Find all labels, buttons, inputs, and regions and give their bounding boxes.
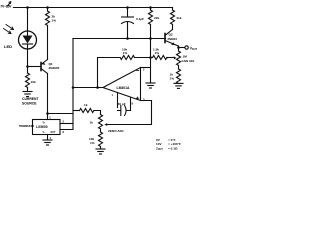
resistor R2 2k emitter Q1 — [46, 6, 49, 9]
node feedback at apex — [96, 86, 99, 89]
wire LED cathode to node — [27, 49, 29, 67]
svg-text:22k: 22k — [154, 16, 159, 20]
svg-text:1%: 1% — [170, 77, 175, 81]
svg-text:10k: 10k — [31, 80, 36, 84]
potentiometer R10 1k zero adj — [99, 115, 103, 133]
supply input arrow — [8, 2, 11, 6]
svg-text:7V–15V: 7V–15V — [0, 4, 12, 8]
terminal Vout — [185, 46, 188, 49]
wire box pin1 to vertical bus — [48, 113, 74, 115]
wire box lower right pin, vertical bus — [60, 39, 73, 130]
transistor Q2 2N3904 — [165, 30, 179, 48]
svg-text:1k: 1k — [90, 121, 94, 125]
wire non-inverting loop — [107, 101, 152, 125]
svg-text:2N3904: 2N3904 — [168, 37, 178, 41]
wire node to pin2 ground — [150, 39, 152, 84]
svg-text:LED: LED — [4, 44, 12, 49]
svg-text:Q2: Q2 — [169, 33, 173, 37]
wire top rail — [14, 7, 173, 9]
wire inverting input to ground bus — [141, 67, 151, 69]
svg-text:= 0.1Ω: = 0.1Ω — [168, 146, 178, 150]
svg-text:30 pF: 30 pF — [118, 102, 126, 106]
LED D1 — [19, 31, 37, 49]
node op-amp output — [72, 86, 75, 89]
svg-text:1%: 1% — [52, 18, 57, 22]
ground R7 — [174, 83, 183, 88]
resistor R4 41k — [171, 8, 175, 30]
svg-text:CURRENT: CURRENT — [22, 97, 40, 101]
input plus — [136, 97, 138, 99]
node rail-LED — [26, 6, 29, 9]
wire box upper right pin — [60, 123, 73, 125]
svg-text:OUT: OUT — [51, 132, 56, 134]
node Q1 collector / box top pin — [46, 112, 49, 115]
svg-text:1%: 1% — [90, 141, 95, 145]
node LED-base junction — [26, 65, 29, 68]
ground box — [43, 140, 52, 145]
wire op-amp output — [73, 87, 103, 89]
svg-text:1%: 1% — [155, 51, 160, 55]
wire upper horizontal to cap and base — [73, 38, 166, 40]
svg-text:0.1µF: 0.1µF — [136, 17, 144, 21]
svg-text:41k: 41k — [176, 16, 181, 20]
arrow into zero pot — [104, 123, 107, 126]
ground LED resistor — [23, 92, 32, 97]
resistor R3 22k — [149, 6, 152, 9]
IC LX5600 transducer box — [33, 120, 61, 135]
wire box top pin — [47, 114, 49, 120]
node 22k bottom — [149, 37, 152, 40]
svg-text:1%: 1% — [123, 51, 128, 55]
wire to Vout — [179, 47, 185, 49]
resistor R1 1k below LED — [26, 67, 30, 92]
svg-text:2N2905: 2N2905 — [49, 66, 60, 70]
svg-text:TRANSDUCER: TRANSDUCER — [19, 125, 34, 128]
svg-text:LM301A: LM301A — [117, 86, 131, 90]
svg-text:1k: 1k — [84, 103, 88, 107]
capacitor C1 0.1uF — [126, 6, 129, 9]
svg-text:1M: 1M — [183, 55, 188, 59]
LED emission arrows — [4, 25, 14, 34]
wire LED anode — [27, 8, 29, 32]
wire box bottom pin — [47, 135, 49, 141]
op-amp U1 LM301A — [103, 68, 141, 101]
resistor R6 horizontal 1.5k 1% — [151, 56, 168, 60]
ground inverting input — [146, 83, 155, 88]
comp capacitor C2 30pF — [118, 93, 131, 116]
resistor R7 1k 1% — [177, 69, 181, 83]
feedback resistor R8 10k — [98, 56, 151, 88]
resistor R9 1k horizontal zero row — [73, 109, 101, 115]
node emitter/Vout — [177, 46, 180, 49]
input minus — [137, 70, 139, 72]
wiper arrow gain pot — [167, 57, 177, 60]
svg-text:SOURCE: SOURCE — [22, 102, 37, 106]
svg-text:LX5600: LX5600 — [36, 125, 48, 129]
ground bottom pot — [96, 149, 105, 154]
potentiometer R5 1M gain adj — [177, 48, 181, 70]
svg-text:ZERO ADJ: ZERO ADJ — [108, 129, 124, 133]
wire base Q1 — [28, 66, 42, 68]
resistor R11 10k bottom — [99, 132, 103, 149]
svg-text:GAIN ADJ: GAIN ADJ — [182, 59, 195, 63]
transistor Q1 2N2905 — [41, 60, 48, 114]
